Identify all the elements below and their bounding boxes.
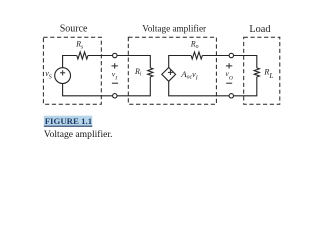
svg-text:Voltage amplifier.: Voltage amplifier. <box>44 129 113 140</box>
svg-text:Voltage amplifier: Voltage amplifier <box>142 23 206 33</box>
svg-text:Load: Load <box>249 24 271 35</box>
svg-text:Source: Source <box>60 24 88 35</box>
svg-text:FIGURE 1.1: FIGURE 1.1 <box>45 116 92 126</box>
